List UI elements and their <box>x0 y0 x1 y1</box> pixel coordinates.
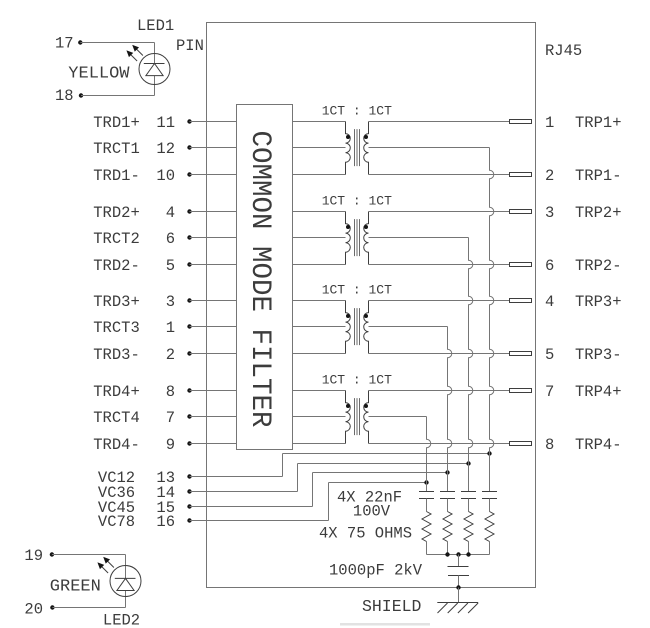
svg-text:8: 8 <box>545 436 554 454</box>
svg-text:TRP2-: TRP2- <box>575 257 622 275</box>
svg-text:TRD3+: TRD3+ <box>93 293 140 311</box>
svg-text:LED1: LED1 <box>137 17 174 35</box>
svg-text:10: 10 <box>156 167 175 185</box>
svg-text:4: 4 <box>545 293 554 311</box>
svg-text:17: 17 <box>55 35 74 53</box>
svg-text:7: 7 <box>545 383 554 401</box>
svg-text:3: 3 <box>166 293 175 311</box>
svg-text:5: 5 <box>545 346 554 364</box>
svg-text:GREEN: GREEN <box>50 578 101 597</box>
svg-text:2: 2 <box>166 346 175 364</box>
svg-text:5: 5 <box>166 257 175 275</box>
svg-text:TRP4-: TRP4- <box>575 436 622 454</box>
svg-text:TRP3+: TRP3+ <box>575 293 622 311</box>
svg-text:7: 7 <box>166 409 175 427</box>
svg-text:1CT : 1CT: 1CT : 1CT <box>322 283 392 298</box>
svg-text:TRD4-: TRD4- <box>93 436 140 454</box>
svg-text:LED2: LED2 <box>103 612 140 628</box>
svg-text:1CT : 1CT: 1CT : 1CT <box>322 104 392 119</box>
svg-text:8: 8 <box>166 383 175 401</box>
svg-text:2: 2 <box>545 167 554 185</box>
svg-text:1000pF 2kV: 1000pF 2kV <box>329 562 423 580</box>
svg-text:19: 19 <box>24 547 43 565</box>
svg-text:1CT : 1CT: 1CT : 1CT <box>322 373 392 388</box>
svg-text:TRD4+: TRD4+ <box>93 383 140 401</box>
svg-text:4X 75 OHMS: 4X 75 OHMS <box>319 525 412 543</box>
svg-text:20: 20 <box>24 601 43 619</box>
svg-text:SHIELD: SHIELD <box>362 597 422 616</box>
svg-text:3: 3 <box>545 204 554 222</box>
svg-text:12: 12 <box>156 140 175 158</box>
svg-text:TRP1-: TRP1- <box>575 167 622 185</box>
svg-text:9: 9 <box>166 436 175 454</box>
svg-text:PIN: PIN <box>176 37 204 55</box>
svg-text:TRD2+: TRD2+ <box>93 204 140 222</box>
svg-text:TRP2+: TRP2+ <box>575 204 622 222</box>
svg-text:1CT : 1CT: 1CT : 1CT <box>322 194 392 209</box>
svg-text:VC78: VC78 <box>98 513 135 531</box>
svg-text:1: 1 <box>166 319 175 337</box>
svg-text:TRP4+: TRP4+ <box>575 383 622 401</box>
svg-text:TRCT4: TRCT4 <box>93 409 140 427</box>
svg-text:1: 1 <box>545 114 554 132</box>
svg-text:11: 11 <box>156 114 175 132</box>
svg-text:TRCT3: TRCT3 <box>93 319 140 337</box>
svg-text:6: 6 <box>545 257 554 275</box>
svg-text:COMMON MODE FILTER: COMMON MODE FILTER <box>244 131 275 428</box>
svg-text:TRD3-: TRD3- <box>93 346 140 364</box>
svg-text:18: 18 <box>55 87 74 105</box>
svg-text:TRD1-: TRD1- <box>93 167 140 185</box>
svg-text:TRP1+: TRP1+ <box>575 114 622 132</box>
svg-text:TRCT1: TRCT1 <box>93 140 140 158</box>
svg-text:TRD2-: TRD2- <box>93 257 140 275</box>
svg-text:RJ45: RJ45 <box>545 42 582 60</box>
svg-text:4: 4 <box>166 204 175 222</box>
svg-text:16: 16 <box>156 513 175 531</box>
svg-text:TRD1+: TRD1+ <box>93 114 140 132</box>
svg-text:100V: 100V <box>353 503 391 521</box>
svg-text:YELLOW: YELLOW <box>68 64 130 83</box>
svg-text:TRP3-: TRP3- <box>575 346 622 364</box>
svg-text:6: 6 <box>166 230 175 248</box>
svg-text:TRCT2: TRCT2 <box>93 230 140 248</box>
